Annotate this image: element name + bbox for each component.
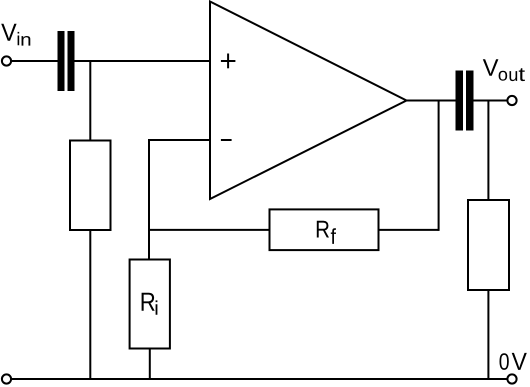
resistor Rf body	[270, 209, 379, 250]
wire R1 to ground rail	[89, 230, 91, 379]
label Vout	[483, 59, 525, 81]
ground terminal left	[2, 374, 11, 383]
label Ri	[142, 293, 158, 315]
capacitor C1 (input coupling), plate 1	[58, 31, 65, 91]
input terminal Vin	[2, 56, 11, 65]
wire C2 to output terminal	[473, 100, 508, 102]
resistor Ri body	[130, 260, 170, 349]
wire C1 to op-amp non-inverting input	[75, 60, 211, 62]
wire inverting input to node B	[149, 139, 210, 141]
label 0V	[500, 353, 527, 370]
wire node B to resistor Rf	[149, 229, 270, 231]
op-amp U1 body	[210, 2, 407, 200]
node A: wire down from input node to bias resistor R1	[89, 61, 91, 141]
op-amp + (non-inverting) input symbol	[221, 60, 236, 62]
wire op-amp output to capacitor C2	[407, 100, 457, 102]
output terminal Vout	[507, 96, 516, 105]
capacitor C2 (output coupling), plate 1	[456, 71, 464, 131]
resistor R2 (load resistor, unlabelled)	[468, 200, 509, 290]
wire Ri to ground rail	[149, 349, 151, 380]
ground terminal right 0V	[507, 374, 516, 383]
wire R2 to ground rail	[487, 290, 489, 379]
label Vin	[1, 24, 30, 46]
wire input terminal to capacitor C1	[11, 60, 57, 62]
resistor R1 (input bias resistor, unlabelled)	[70, 141, 111, 231]
label Rf	[317, 221, 336, 244]
wire output node down to load resistor R2	[487, 101, 489, 201]
node B: vertical wire from inverting input down to Ri	[148, 139, 150, 260]
capacitor C1 (input coupling), plate 2	[68, 31, 75, 91]
capacitor C2 (output coupling), plate 2	[466, 71, 474, 131]
wire Rf to feedback tap	[379, 229, 439, 231]
ground rail (0V bus)	[11, 378, 507, 380]
feedback wire up to output node	[438, 101, 440, 231]
op-amp - (inverting) input symbol	[221, 139, 232, 141]
